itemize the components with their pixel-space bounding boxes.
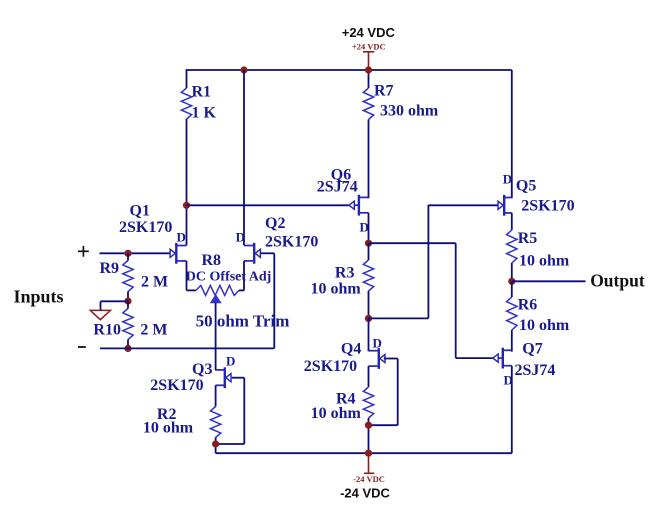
wire R2 bottom xyxy=(215,438,217,454)
svg-text:2SK170: 2SK170 xyxy=(119,219,172,236)
svg-text:D: D xyxy=(236,230,245,245)
svg-text:10 ohm: 10 ohm xyxy=(311,280,362,297)
svg-text:10 ohm: 10 ohm xyxy=(519,317,570,334)
wire R3-top to Q7 gate xyxy=(369,242,456,244)
svg-text:D: D xyxy=(360,219,369,234)
svg-text:Q4: Q4 xyxy=(341,340,361,357)
svg-text:10 ohm: 10 ohm xyxy=(143,419,194,436)
wire R3-bottom to Q5 gate xyxy=(369,317,429,319)
node R1/Q6-gate junction xyxy=(183,202,190,209)
node - input / R10 xyxy=(124,345,131,352)
resistor R6 xyxy=(507,297,517,330)
svg-text:Q5: Q5 xyxy=(516,178,536,195)
transistor Q2 2SK170 xyxy=(253,243,255,264)
node R9/R10/ground xyxy=(124,298,131,305)
wire R5 bottom xyxy=(511,263,513,281)
svg-text:D: D xyxy=(373,335,382,350)
wire top +24V rail xyxy=(187,69,512,71)
svg-text:R9: R9 xyxy=(100,260,120,277)
svg-text:R1: R1 xyxy=(192,84,212,101)
wire Q3 gate feedback xyxy=(232,377,245,379)
node +24 rail / R7 column xyxy=(365,66,372,73)
svg-text:D: D xyxy=(503,172,512,187)
wire Q4 source down xyxy=(368,366,370,387)
wire + input to Q1 gate xyxy=(100,252,171,254)
svg-text:Q1: Q1 xyxy=(130,202,150,219)
node R2/feedback xyxy=(212,440,219,447)
transistor Q4 2SK170 xyxy=(378,348,380,369)
wire wiper down to Q3 drain xyxy=(215,303,217,371)
wire bottom -24V rail xyxy=(216,452,512,454)
wire Q7 drain down to rail xyxy=(511,366,513,453)
wire Q2 drain column xyxy=(243,70,245,245)
wire R8 right lead xyxy=(239,289,244,291)
wire - input line xyxy=(100,347,274,349)
svg-text:2SJ74: 2SJ74 xyxy=(515,362,556,379)
svg-text:2 M: 2 M xyxy=(140,322,167,339)
svg-text:1 K: 1 K xyxy=(192,105,217,122)
resistor R10 xyxy=(123,309,133,340)
svg-text:2SK170: 2SK170 xyxy=(150,377,203,394)
transistor Q1 2SK170 xyxy=(175,243,177,264)
svg-text:R8: R8 xyxy=(202,252,222,269)
svg-text:R5: R5 xyxy=(518,230,538,247)
resistor R7 xyxy=(363,88,373,120)
resistor R2 xyxy=(210,407,220,438)
node Q6 drain / R3 top xyxy=(365,240,372,247)
svg-text:R7: R7 xyxy=(374,83,394,100)
node output xyxy=(508,278,515,285)
potentiometer R8 xyxy=(196,285,239,295)
svg-text:-24 VDC: -24 VDC xyxy=(340,486,390,501)
svg-text:10 ohm: 10 ohm xyxy=(311,405,362,422)
wire R7 bottom to Q6 source xyxy=(368,120,370,199)
svg-text:R6: R6 xyxy=(518,297,538,314)
svg-text:330 ohm: 330 ohm xyxy=(380,103,439,120)
svg-text:2 M: 2 M xyxy=(141,273,168,290)
svg-text:2SK170: 2SK170 xyxy=(265,234,318,251)
node R4/feedback xyxy=(365,422,372,429)
wire Q6 drain down xyxy=(368,213,370,243)
wire ground stub xyxy=(101,300,129,302)
wire R10 leads xyxy=(127,301,129,309)
svg-text:50 ohm Trim: 50 ohm Trim xyxy=(196,311,290,330)
svg-text:D: D xyxy=(226,354,235,369)
resistor R3 xyxy=(363,260,373,291)
wire Q2 gate down to - input xyxy=(273,253,275,348)
wire R3 top lead xyxy=(368,243,370,260)
wire R4 bottom xyxy=(368,418,370,453)
wire Q2 gate to right xyxy=(260,252,274,254)
wire R1 top lead xyxy=(186,69,188,88)
svg-text:10 ohm: 10 ohm xyxy=(519,253,570,270)
svg-text:Output: Output xyxy=(590,271,645,291)
wire R3 bottom to Q4 drain xyxy=(368,318,370,351)
wire R9 leads xyxy=(127,253,129,260)
node R3 bottom xyxy=(365,315,372,322)
wire Q6 gate from R1 column xyxy=(187,204,349,206)
label - xyxy=(78,346,86,348)
resistor R5 xyxy=(507,230,517,263)
transistor Q6 2SJ74 xyxy=(358,195,360,216)
resistor R1 xyxy=(181,88,191,119)
wire R3 bottom lead xyxy=(368,291,370,318)
svg-text:+24 VDC: +24 VDC xyxy=(342,25,396,40)
svg-text:Q7: Q7 xyxy=(522,340,542,357)
svg-text:+24 VDC: +24 VDC xyxy=(352,41,386,51)
svg-text:DC Offset Adj: DC Offset Adj xyxy=(186,270,272,285)
R8 wiper arrow xyxy=(211,295,221,303)
transistor Q3 2SK170 xyxy=(224,367,226,388)
wire Q1 source down xyxy=(186,261,188,290)
svg-text:-24 VDC: -24 VDC xyxy=(353,474,385,484)
svg-text:2SK170: 2SK170 xyxy=(521,197,574,214)
transistor Q7 2SJ74 xyxy=(502,348,504,369)
wire output xyxy=(512,280,586,282)
svg-text:Inputs: Inputs xyxy=(14,287,64,307)
power +24 VDC symbol xyxy=(368,52,370,70)
svg-text:R10: R10 xyxy=(93,322,121,339)
wire R8 left lead xyxy=(187,289,197,291)
wire R7 top lead xyxy=(368,69,370,88)
svg-text:Q2: Q2 xyxy=(265,215,285,232)
svg-text:D: D xyxy=(177,230,186,245)
wire Q2 source down xyxy=(243,261,245,290)
wire Q4 gate feedback xyxy=(384,358,398,360)
wire Q3 source down xyxy=(215,385,217,406)
ground symbol xyxy=(90,310,110,319)
power -24 VDC symbol xyxy=(368,453,370,473)
node +24 rail / Q2 column xyxy=(240,66,247,73)
svg-text:2SJ74: 2SJ74 xyxy=(317,178,358,195)
wire R6 leads xyxy=(511,281,513,297)
wire R1 bottom to Q1 drain xyxy=(186,119,188,245)
label + xyxy=(78,250,89,252)
svg-text:2SK170: 2SK170 xyxy=(304,358,357,375)
wire Q5 source to R5 xyxy=(511,213,513,230)
transistor Q5 2SK170 xyxy=(503,195,505,216)
svg-text:R3: R3 xyxy=(335,265,355,282)
node -24 rail xyxy=(365,450,372,457)
wire right column top (rail to Q5 drain) xyxy=(511,70,513,198)
resistor R9 xyxy=(123,261,133,292)
svg-text:Q3: Q3 xyxy=(192,361,212,378)
resistor R4 xyxy=(363,387,373,418)
node + input / R9 xyxy=(124,250,131,257)
